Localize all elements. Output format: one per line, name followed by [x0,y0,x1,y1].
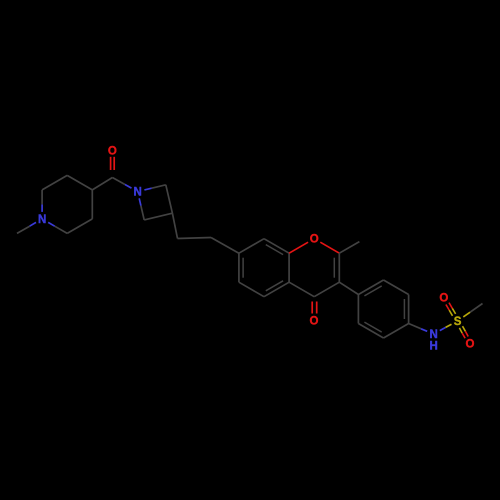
double bond inner line C2=C3 [333,258,335,278]
bond C5-C6 piperidine [67,219,92,234]
bond phenyl C4-N sulfonamide [409,324,428,332]
svg-text:O: O [310,316,319,328]
aromatic inner line phenyl C5=C6 [364,322,381,332]
bond N-S sulfonamide [440,324,452,330]
bond C2-C3 azetidine [166,185,173,213]
bond C3-C1 phenyl link [339,282,358,294]
bond N1-C6 piperidine [48,222,67,233]
bond C2-C3 piperidine [42,175,67,190]
bond C4-C5 piperidine [91,190,93,219]
double bond S=O lower [459,326,468,338]
atom label O ketone [310,316,319,328]
bond C5-C4a chromene benzo ring [264,282,289,297]
aromatic inner line phenyl C1=C2 [364,286,381,296]
svg-text:O: O [310,234,319,246]
bond N1-C2 piperidine [41,190,43,212]
bond C2-C3 chromene [338,253,340,282]
atom label S sulfonyl [454,316,462,328]
bond C4(piperidine)-C(=O) [92,178,112,190]
bond O1-C2 chromene [320,242,339,253]
aromatic inner line C7=C6 [242,258,244,278]
atom label O1 chromene [310,234,319,246]
bond CH2-C7 chromene linker [211,238,239,254]
double bond C=O amide carbonyl [111,157,115,170]
svg-text:H: H [430,341,438,353]
bond C4-C3 azetidine [144,213,172,220]
bond N1-CH3 N-methyl [17,222,36,233]
bond C8a-C8 chromene benzo ring [264,239,289,254]
atom label N sulfonamide [430,329,438,341]
bond C3-C4 chromene [314,282,339,297]
svg-text:O: O [466,339,475,351]
aromatic inner line C8=C8a [266,245,283,255]
aromatic inner line C5=C4a [266,281,283,291]
bond C6-C5 chromene benzo ring [239,282,264,297]
svg-text:N: N [38,214,46,226]
bond C4a-C8a chromene benzo ring [288,253,290,282]
bond C7-C6 chromene benzo ring [238,253,240,282]
bond C8-C7 chromene benzo ring [239,239,264,254]
svg-text:N: N [133,187,141,199]
bond C5-C6 phenyl ring [358,324,383,339]
svg-text:O: O [108,146,117,158]
atom label O sulfonyl lower [466,339,475,351]
atom label O amide carbonyl [108,146,117,158]
bond C(=O)-N azetidine amide [112,178,131,189]
atom label N azetidine [133,187,141,199]
bond C2-C3 phenyl ring [384,280,409,295]
bond C3-C4 phenyl ring [408,295,410,324]
bond C3-C4 piperidine [67,175,92,190]
double bond C4=O ketone [312,302,317,314]
double bond S=O upper [446,303,456,316]
atom label O sulfonyl upper [439,293,448,305]
bond C2-CH3 2-methyl [339,242,359,254]
bond S-CH3 methanesulfonyl [463,304,482,317]
bond C8a-O1 chromene [289,242,308,253]
bond CH2-CH2 linker [178,238,212,239]
svg-text:O: O [439,293,448,305]
bond azetidine C3-CH2 linker [172,213,177,238]
svg-text:S: S [454,316,462,328]
atom label H on sulfonamide N [430,341,438,353]
bond C1-C2 phenyl ring [358,280,383,295]
aromatic inner line phenyl C3=C4 [403,299,405,319]
bond C4-C4a chromene [289,282,314,297]
bond N-C4 azetidine [139,198,144,220]
bond C6-C1 phenyl ring [357,295,359,324]
atom label N piperidine [38,214,46,226]
bond N-C2 azetidine [144,185,165,190]
bond C4-C5 phenyl ring [384,324,409,339]
svg-text:N: N [430,329,438,341]
